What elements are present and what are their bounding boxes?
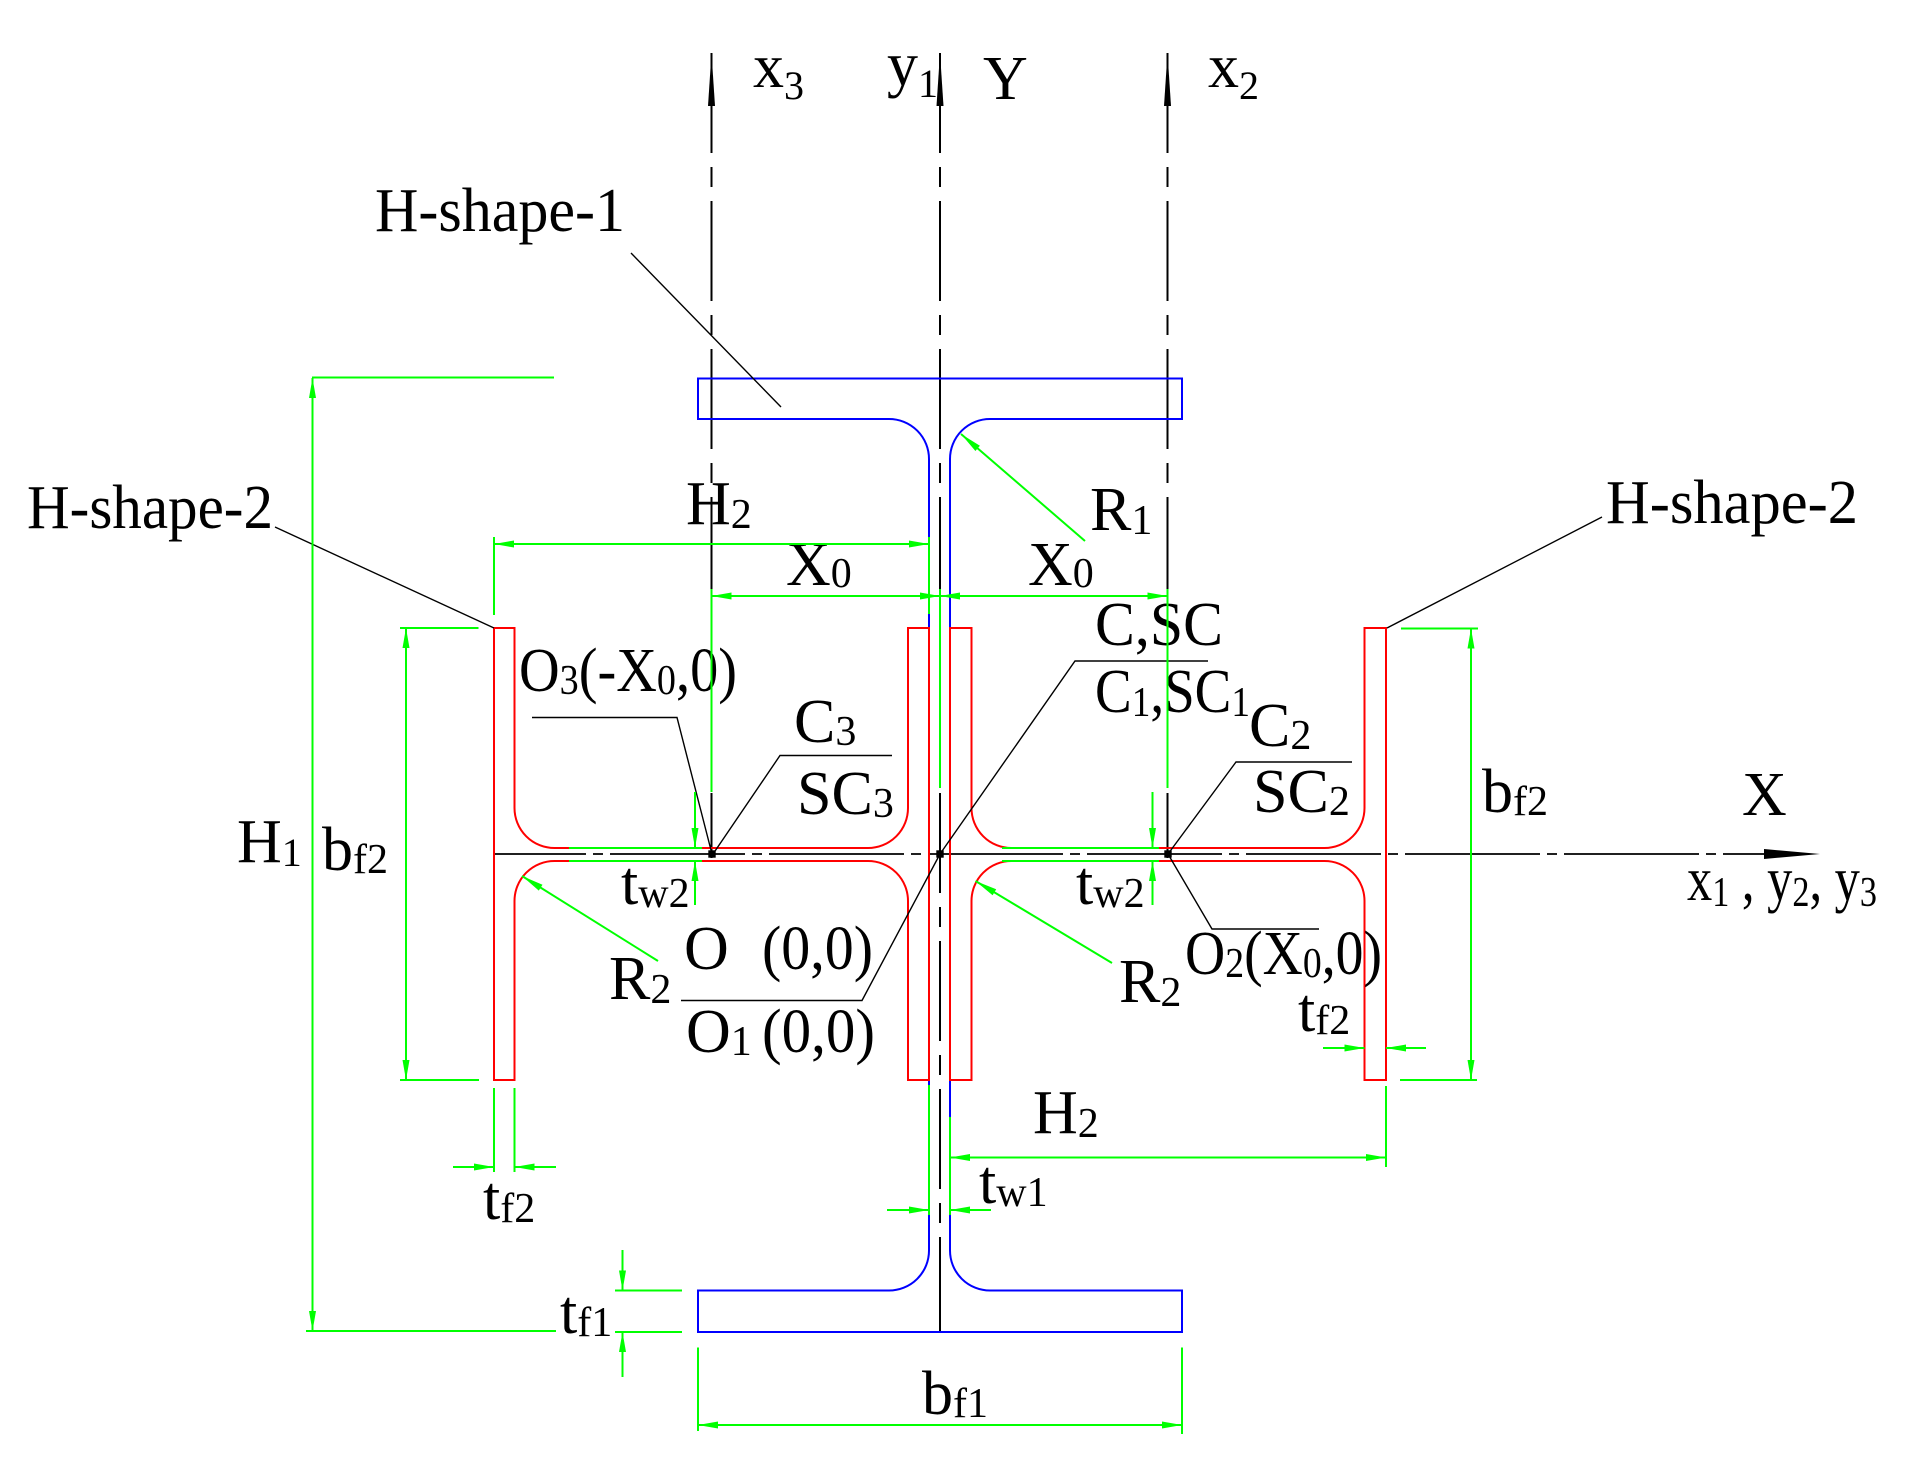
dimension tw2 right: [1152, 792, 1154, 848]
GREEN DIMENSIONS: [306, 378, 1478, 1435]
leader O2 label: [1168, 854, 1319, 929]
leader C,SC / C1,SC1 label: [940, 661, 1208, 854]
node O3 dot: [708, 850, 715, 857]
dimension tf2 left: [453, 1166, 494, 1168]
arrow x2: [1164, 53, 1171, 106]
R2 right arrowhead: [976, 881, 997, 895]
leader H-shape-2 left: [275, 527, 494, 628]
R2 left arrowhead: [522, 876, 543, 891]
svg-text:(0,0): (0,0): [762, 998, 875, 1066]
node O2 dot: [1164, 850, 1171, 857]
dimension tw1: [887, 1209, 929, 1211]
H-shape-2 right red outline: [950, 628, 1386, 1080]
dimension H2 bottom line: [950, 1157, 1386, 1159]
arrow y1: [937, 53, 944, 106]
leader R2 right: [976, 881, 1113, 963]
dimension tw2 left: [694, 792, 696, 848]
svg-text:H-shape-2: H-shape-2: [27, 474, 273, 542]
leader R1: [961, 434, 1085, 541]
dimension X0 line: [712, 595, 1168, 597]
leader H-shape-1: [631, 253, 781, 407]
centerline x2 axis: [1167, 53, 1169, 858]
svg-text:H-shape-1: H-shape-1: [375, 177, 625, 245]
arrow x3: [708, 53, 715, 106]
centerline x3 axis: [711, 53, 713, 858]
svg-text:X: X: [1742, 761, 1787, 829]
dimension bf2 right line: [1470, 629, 1472, 1081]
BLACK LEADERS: [275, 253, 1602, 1001]
tw2 left arrows: [692, 828, 699, 848]
tw1 arrows: [909, 1207, 929, 1214]
dimension tf2 right: [1323, 1047, 1365, 1049]
H-shape-2 left red outline: [494, 628, 929, 1080]
bf1 arrows: [698, 1422, 718, 1429]
dimension H1 line: [312, 378, 314, 1331]
bf2 right arrows: [1468, 629, 1475, 649]
leader H-shape-2 right: [1387, 517, 1602, 628]
H-shape-1 blue I-beam outline: [698, 379, 1182, 1333]
svg-text:C1,SC1: C1,SC1: [1095, 658, 1250, 726]
centerline X axis: [494, 853, 1764, 855]
leader O3 label: [532, 718, 712, 855]
leader R2 left: [522, 876, 658, 961]
svg-text:H-shape-2: H-shape-2: [1606, 469, 1858, 537]
R1 arrowhead: [961, 434, 980, 451]
H2 top arrows: [494, 541, 514, 548]
centerline y1/Y axis: [939, 53, 941, 1331]
dimension tf1: [622, 1250, 624, 1291]
svg-text:C,SC: C,SC: [1095, 591, 1223, 659]
leader C3/SC3 label: [713, 756, 892, 855]
X0 arrows: [712, 593, 732, 600]
dimension bf1 line: [698, 1424, 1182, 1426]
svg-text:O3(-X0,0): O3(-X0,0): [519, 637, 737, 705]
tw2 right arrows: [1149, 828, 1156, 848]
leader O/O1 label: [681, 854, 940, 1001]
svg-text:O: O: [684, 915, 729, 983]
node O dot: [936, 850, 943, 857]
leader C2/SC2 label: [1168, 762, 1352, 854]
arrow X axis: [1764, 849, 1820, 859]
svg-text:Y: Y: [983, 45, 1028, 113]
svg-text:(0,0): (0,0): [762, 915, 873, 983]
bf2 left arrows: [403, 628, 410, 648]
dimension bf2 left line: [405, 628, 407, 1080]
green arrowheads: [309, 378, 1475, 1429]
svg-text:O2(X0,0): O2(X0,0): [1185, 920, 1382, 988]
tf2 left arrows: [474, 1164, 494, 1171]
dimension H2 top line: [494, 543, 929, 545]
H2 bottom arrows: [950, 1154, 970, 1161]
tf1 arrows: [619, 1271, 626, 1291]
tf2 right arrows: [1345, 1045, 1365, 1052]
H1 arrows: [309, 378, 316, 398]
